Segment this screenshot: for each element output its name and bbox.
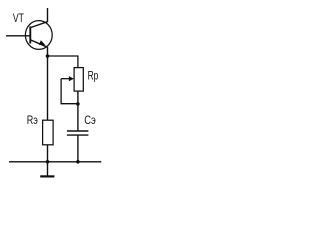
wire Rэ to rail (47, 145, 49, 162)
wire emitter down to Rэ (47, 47, 49, 120)
base wire (6, 35, 30, 37)
capacitor Cэ (67, 131, 89, 135)
transistor VT (25, 8, 52, 49)
node rail-Cэ junction (76, 160, 80, 164)
node rail-Rэ junction (46, 160, 50, 164)
bottom rail wire (9, 161, 101, 163)
wire emitter to Rp top (48, 56, 78, 68)
svg-text:Cэ: Cэ (84, 114, 96, 127)
wire Cэ to rail (77, 135, 79, 162)
wire Rp bottom to Cэ (77, 91, 79, 131)
potentiometer Rp (61, 68, 83, 92)
svg-text:VT: VT (13, 13, 25, 26)
ground (40, 162, 54, 177)
svg-text:Rэ: Rэ (27, 114, 38, 128)
node emitter junction (46, 54, 50, 58)
svg-text:Rp: Rp (88, 70, 99, 83)
resistor Rэ (43, 120, 54, 145)
wire wiper loop (61, 79, 78, 104)
node wiper junction (76, 102, 80, 106)
